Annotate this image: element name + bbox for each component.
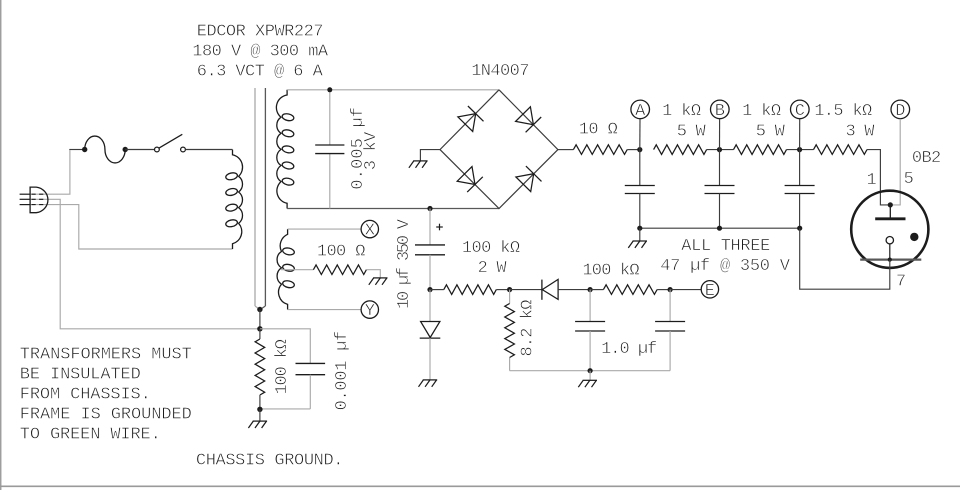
label 3 kV: [362, 131, 381, 170]
svg-text:X: X: [365, 222, 375, 241]
svg-text:1.0 µf: 1.0 µf: [601, 340, 657, 359]
label 0.001 uf: [333, 331, 352, 411]
wire filter bottom rail: [637, 226, 802, 231]
svg-text:CHASSIS GROUND.: CHASSIS GROUND.: [196, 452, 344, 471]
svg-text:FROM CHASSIS.: FROM CHASSIS.: [20, 386, 151, 405]
wire bridge to R2: [558, 149, 574, 151]
bridge wires (diamond): [440, 90, 558, 209]
wire switch to primary: [185, 149, 232, 151]
svg-text:0.001 µf: 0.001 µf: [333, 331, 352, 411]
capacitor C7 1.0uf: [655, 290, 685, 371]
wire chassis ground stub: [259, 409, 261, 421]
wire plug ground (green wire) to chassis node: [30, 199, 258, 328]
wire chassis bottom: [257, 407, 310, 412]
svg-text:0B2: 0B2: [912, 149, 941, 168]
diode D4 (bridge bottom-right): [516, 166, 542, 192]
label 47 uf @ 350 V: [660, 257, 790, 276]
label 100 kohm (R6): [462, 239, 520, 258]
svg-text:6.3 VCT @ 6 A: 6.3 VCT @ 6 A: [197, 62, 324, 81]
transformer T1 core line right: [260, 88, 265, 310]
resistor R7 8.2k: [505, 304, 515, 358]
label 10 ohm: [579, 121, 618, 140]
ground (filter bank): [628, 241, 647, 248]
label 100 kohm (chassis): [273, 339, 292, 395]
svg-text:3 W: 3 W: [846, 123, 876, 142]
node X terminal: [361, 220, 378, 240]
ground (chassis): [248, 421, 267, 428]
wire center tap to R9: [281, 269, 313, 271]
wire bridge minus stub: [420, 150, 440, 161]
note line 5: [20, 426, 161, 445]
resistor R6 100k 2W: [444, 285, 497, 295]
wire bottom rail stub: [639, 228, 641, 241]
wire R8 junctions: [590, 287, 673, 292]
fuse F1: [82, 136, 128, 163]
label 1.0 uf: [601, 340, 657, 359]
node D terminal: [891, 100, 910, 121]
svg-text:10 µf 350 V: 10 µf 350 V: [395, 218, 414, 309]
wire bottom rail ground stub: [589, 371, 591, 381]
svg-text:8.2 kΩ: 8.2 kΩ: [518, 300, 537, 357]
label 0B2: [912, 149, 941, 168]
label pin 5: [904, 170, 914, 189]
label 2 W (R6): [478, 259, 508, 278]
diode D5 (to ground): [420, 290, 441, 380]
resistor R5 1.5k 3W: [814, 145, 868, 155]
svg-text:1: 1: [867, 171, 877, 190]
svg-text:100 Ω: 100 Ω: [317, 242, 366, 261]
capacitor C6 1.0uf: [575, 290, 605, 371]
svg-text:5 W: 5 W: [677, 123, 707, 142]
AC plug P1: [20, 187, 48, 213]
diode D3 (bridge bottom-left): [457, 167, 483, 193]
wire 6.3V bottom to Y: [288, 309, 361, 311]
transformer T1 core line left (frame): [255, 88, 260, 310]
wire plug neutral to primary bottom: [30, 205, 232, 249]
wire secondary bottom junction: [427, 206, 432, 211]
transformer T1 6.3V winding: [277, 229, 295, 310]
voltage regulator tube V1 0B2: [851, 191, 928, 268]
svg-text:ALL THREE: ALL THREE: [681, 237, 770, 256]
label 1N4007: [471, 62, 529, 81]
wire R9 to ground: [366, 270, 380, 278]
ground (C5 branch): [419, 380, 438, 387]
wire to node E: [670, 289, 701, 291]
wire C5 junction to R6: [430, 289, 444, 291]
node C terminal: [791, 100, 810, 150]
label 3 W (R5): [846, 123, 876, 142]
capacitor C1 0.005uf 3kV: [315, 87, 344, 208]
wire tube pin 7 return: [800, 228, 890, 289]
svg-text:FRAME IS GROUNDED: FRAME IS GROUNDED: [20, 406, 192, 425]
svg-text:5 W: 5 W: [756, 123, 786, 142]
svg-text:10 Ω: 10 Ω: [579, 121, 618, 140]
wire plug hot to fuse: [30, 150, 85, 195]
resistor R9 100 ohm: [313, 265, 366, 275]
svg-text:7: 7: [896, 273, 906, 292]
capacitor C3 47uf 350V: [705, 150, 735, 229]
wire fuse to switch: [125, 149, 154, 151]
svg-text:100 kΩ: 100 kΩ: [582, 262, 639, 281]
diode D1 (bridge top-left): [458, 106, 484, 132]
label 100 kohm (R8): [582, 262, 639, 281]
wire R6 to junction: [496, 287, 512, 292]
label pin 7: [896, 273, 906, 292]
transformer T1 primary winding: [225, 150, 242, 249]
resistor R10 100k (chassis): [255, 329, 265, 410]
label 5 W (R4): [756, 123, 786, 142]
svg-text:1N4007: 1N4007: [471, 62, 529, 81]
diode D2 (bridge top-right): [516, 107, 542, 133]
switch S1: [155, 134, 186, 152]
node Y terminal: [361, 301, 378, 321]
wire R7 to bottom rail: [509, 358, 511, 371]
svg-text:EDCOR XPWR227: EDCOR XPWR227: [197, 23, 324, 42]
note line 3: [20, 386, 151, 405]
label 0.005 uf: [349, 107, 368, 190]
svg-text:D: D: [895, 102, 905, 121]
label pin 1: [867, 171, 877, 190]
capacitor C5 10uf 350V (+): [415, 209, 445, 290]
note line 1: [20, 346, 192, 365]
node B terminal: [711, 100, 730, 150]
label 10 uf 350 V: [395, 218, 414, 309]
svg-text:3 kV: 3 kV: [362, 131, 381, 170]
wire junction to R7: [509, 290, 511, 304]
svg-text:1 kΩ: 1 kΩ: [742, 102, 781, 121]
wire R5 to tube pin 1: [867, 150, 888, 205]
svg-text:100 kΩ: 100 kΩ: [273, 339, 292, 395]
node E terminal: [701, 281, 718, 301]
wire R2 to node A: [627, 147, 642, 152]
svg-text:Y: Y: [365, 302, 375, 321]
wire 6.3V top to X: [288, 228, 361, 230]
label EDCOR XPWR227: [197, 23, 324, 42]
capacitor C2 47uf 350V: [625, 150, 655, 229]
svg-text:BE INSULATED: BE INSULATED: [20, 366, 141, 385]
svg-text:TO GREEN WIRE.: TO GREEN WIRE.: [20, 426, 161, 445]
resistor R2 10 ohm: [573, 145, 627, 155]
label 1.5 kohm (R5): [814, 102, 872, 121]
transformer T1 HV secondary winding: [276, 90, 294, 209]
wire node D to tube pin 5: [892, 119, 901, 205]
wire divider bottom rail: [510, 368, 670, 373]
ground (center tap): [369, 278, 388, 285]
label 180 V @ 300 mA: [192, 42, 329, 61]
wire R3 to node B: [707, 147, 734, 152]
ground (bridge): [409, 161, 428, 168]
note line 2: [20, 366, 141, 385]
label 1 kohm (R4): [742, 102, 781, 121]
wire D6 to junction E1: [558, 287, 593, 292]
note line 4: [20, 406, 192, 425]
svg-text:C: C: [795, 102, 805, 121]
node junction C5/R6: [427, 287, 432, 292]
label 5 W (R3): [677, 123, 707, 142]
svg-text:1.5 kΩ: 1.5 kΩ: [814, 102, 872, 121]
node frame junction: [257, 307, 262, 332]
resistor R8 100k: [603, 285, 657, 295]
wire R4 to node C: [787, 147, 814, 152]
label CHASSIS GROUND.: [196, 452, 344, 471]
node A terminal: [631, 100, 650, 150]
diode D6 (series, pointing left): [542, 279, 558, 299]
svg-text:180 V @ 300 mA: 180 V @ 300 mA: [192, 42, 329, 61]
capacitor C4 47uf 350V: [785, 150, 815, 229]
label 6.3 VCT @ 6 A: [197, 62, 324, 81]
svg-text:1 kΩ: 1 kΩ: [662, 102, 701, 121]
wire secondary bottom rail: [287, 208, 499, 210]
svg-text:100 kΩ: 100 kΩ: [462, 239, 520, 258]
wire secondary top rail: [287, 89, 499, 91]
svg-text:5: 5: [904, 170, 914, 189]
label 8.2 kohm: [518, 300, 537, 357]
svg-text:A: A: [635, 102, 646, 121]
capacitor C8 0.001uf: [296, 363, 326, 409]
label ALL THREE: [681, 237, 770, 256]
ground (divider): [578, 380, 597, 387]
svg-text:2 W: 2 W: [478, 259, 508, 278]
label 100 ohm: [317, 242, 366, 261]
resistor R4 1k 5W: [734, 145, 787, 155]
label 1 kohm (R3): [662, 102, 701, 121]
svg-text:B: B: [715, 102, 725, 121]
wire junction to D6: [510, 289, 542, 291]
svg-text:47 µf @ 350 V: 47 µf @ 350 V: [660, 257, 790, 276]
svg-text:TRANSFORMERS MUST: TRANSFORMERS MUST: [20, 346, 192, 365]
wire chassis branch right: [260, 329, 310, 364]
svg-text:E: E: [705, 282, 715, 301]
resistor R3 1k 5W: [654, 145, 707, 155]
